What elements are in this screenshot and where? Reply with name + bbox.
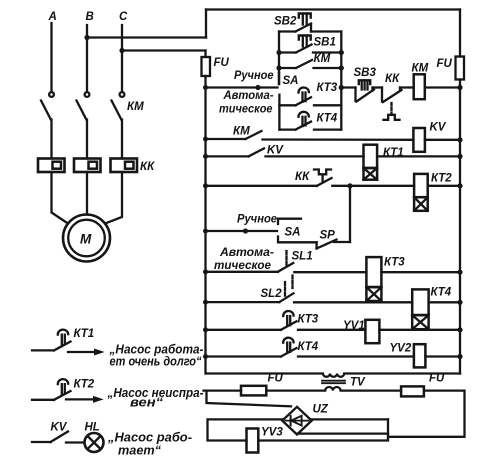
- contact KV (annunciation): [32, 422, 84, 443]
- wire phase C vertical: [121, 25, 123, 91]
- wire heater A to motor: [52, 172, 69, 224]
- node A (phase label): [48, 11, 57, 23]
- svg-text:UZ: UZ: [313, 404, 329, 416]
- svg-text:тает“: тает“: [118, 444, 162, 458]
- svg-text:КТ3: КТ3: [317, 82, 338, 94]
- svg-text:КТ1: КТ1: [74, 328, 95, 340]
- svg-text:КМ: КМ: [314, 53, 331, 65]
- label KM (main contacts): [127, 101, 144, 113]
- wire pole A to heater: [50, 120, 52, 159]
- wire DC loop left: [208, 419, 283, 440]
- contact KT3 (NO delayed, auto branch): [279, 82, 341, 105]
- coil KT3 (timer): [366, 257, 462, 302]
- wire DC loop right: [258, 419, 388, 440]
- fuse FU (bottom right): [401, 373, 445, 397]
- svg-text:Автома-: Автома-: [219, 245, 274, 259]
- coil KT2 (timer): [414, 173, 463, 211]
- svg-text:А: А: [48, 11, 57, 23]
- svg-text:SA: SA: [283, 75, 299, 87]
- svg-text:Ручное: Ручное: [237, 212, 277, 226]
- wire automatic branch rail: [278, 95, 280, 130]
- wire secondary mid with TV secondary winding: [266, 387, 401, 391]
- wire heater B to motor: [86, 172, 88, 215]
- svg-text:тическое: тическое: [219, 102, 273, 116]
- wire phase A vertical: [50, 23, 52, 91]
- label Avtomaticheskoe (top): [219, 88, 274, 116]
- svg-text:FU: FU: [214, 57, 230, 69]
- svg-text:тическое: тическое: [214, 258, 271, 272]
- coil KV: [413, 122, 462, 152]
- wire C to left fuse: [122, 49, 206, 51]
- wire AC feed to rectifier: [207, 391, 292, 407]
- lamp HL: [85, 422, 104, 453]
- svg-text:КТ2: КТ2: [74, 379, 95, 391]
- fuse FU (bottom left): [241, 373, 284, 396]
- svg-text:SA: SA: [285, 227, 301, 239]
- contact KK (thermal NC, row A): [382, 73, 414, 120]
- svg-text:KV: KV: [430, 122, 447, 134]
- contact KM (seal-in, NO): [279, 53, 341, 68]
- selector SA common tick: [279, 73, 298, 87]
- svg-text:FU: FU: [429, 373, 445, 385]
- wire parallel block left rail: [278, 32, 280, 73]
- contact KV (row C): [203, 145, 364, 159]
- arrow KT1 output: [68, 349, 103, 355]
- contactor KM main contact pole A: [41, 92, 54, 119]
- pushbutton SB3 (NC): [354, 67, 383, 102]
- svg-text:ет очень долго“: ет очень долго“: [110, 355, 203, 369]
- svg-text:Ручное: Ручное: [234, 68, 274, 82]
- node B (phase label): [86, 11, 94, 23]
- contact KT2 (annunciation): [32, 379, 95, 400]
- wire left rail: [204, 88, 206, 374]
- transformer TV core: [322, 377, 366, 389]
- svg-text:HL: HL: [85, 422, 100, 434]
- pushbutton SB2 (stop, NC): [274, 14, 341, 32]
- rectifier UZ: [282, 404, 329, 435]
- wire bottom frame with transformer TV primary: [206, 374, 460, 377]
- selector SA (lower): [278, 219, 317, 243]
- svg-text:КТ3: КТ3: [298, 314, 319, 326]
- node C junction: [119, 48, 124, 53]
- contact KT3 (NO delayed, row H): [203, 311, 365, 332]
- wire right rail: [459, 80, 461, 374]
- wire DC band lower: [298, 432, 388, 434]
- arrow KT2 output: [66, 397, 102, 403]
- wire top frame: [206, 8, 460, 10]
- wire branch row D to SP: [349, 186, 351, 242]
- svg-text:SL2: SL2: [261, 288, 283, 300]
- label pump runs too long: [109, 343, 204, 369]
- fuse FU (right): [437, 10, 465, 80]
- contactor KM main contact pole C: [112, 92, 125, 119]
- svg-text:КТ4: КТ4: [431, 287, 452, 299]
- svg-text:КК: КК: [385, 73, 400, 85]
- svg-text:ТV: ТV: [350, 377, 366, 389]
- wire DC band upper: [312, 418, 388, 420]
- coil KT4 (timer): [412, 287, 462, 330]
- contact SL2 (level switch, row G): [203, 282, 412, 305]
- wire B to control frame: [87, 36, 206, 38]
- contact KM aux (row B): [203, 126, 413, 142]
- fuse FU (left): [202, 51, 230, 88]
- svg-text:Автома-: Автома-: [223, 88, 274, 102]
- contact KK (thermal NC, row D): [203, 170, 414, 189]
- wire phase B vertical: [86, 25, 88, 91]
- thermal relay KK heater B: [74, 159, 101, 173]
- svg-text:SP: SP: [320, 230, 336, 242]
- coil YV1 (solenoid valve): [343, 320, 463, 343]
- svg-text:SL1: SL1: [292, 251, 313, 263]
- thermal relay KK heater A: [38, 159, 65, 173]
- coil YV3 (solenoid valve): [247, 427, 284, 453]
- svg-text:КМ: КМ: [412, 63, 429, 75]
- wire secondary right drop: [388, 391, 465, 437]
- contact KT4 (NO delayed, row I): [203, 338, 414, 359]
- svg-text:КТ3: КТ3: [384, 257, 405, 269]
- svg-text:М: М: [80, 232, 92, 247]
- thermal relay KK heater C: [111, 159, 138, 173]
- svg-text:SB2: SB2: [274, 16, 297, 28]
- wire heater C to motor: [105, 172, 122, 224]
- svg-text:КТ4: КТ4: [317, 113, 338, 125]
- svg-text:КТ4: КТ4: [298, 341, 319, 353]
- contact SL1 (level switch, row F): [203, 251, 366, 289]
- label KK (heaters): [140, 161, 155, 173]
- svg-text:KV: KV: [51, 422, 68, 434]
- coil KM: [412, 63, 463, 100]
- svg-text:КМ: КМ: [233, 126, 250, 138]
- svg-text:С: С: [119, 11, 128, 23]
- label pump faulty: [107, 386, 204, 410]
- svg-text:КК: КК: [140, 161, 155, 173]
- coil KT1 (timer): [364, 145, 463, 180]
- label Ruchnoe (top): [234, 68, 274, 82]
- wire pole B to heater: [86, 120, 88, 159]
- svg-text:FU: FU: [437, 58, 453, 70]
- label pump running: [107, 431, 192, 458]
- contactor KM main contact pole B: [77, 92, 90, 119]
- svg-text:SB3: SB3: [354, 67, 377, 79]
- svg-text:KV: KV: [267, 145, 284, 157]
- wire parallel block right rail: [276, 32, 344, 130]
- motor M: [63, 215, 110, 262]
- svg-text:„Насос рабо-: „Насос рабо-: [107, 431, 192, 445]
- svg-text:В: В: [86, 11, 94, 23]
- pushbutton SB1 (start, NO): [279, 36, 341, 53]
- contact KT4 (NO delayed, auto branch): [279, 112, 341, 130]
- wire row A mid: [341, 86, 355, 88]
- svg-text:YV2: YV2: [390, 343, 412, 355]
- node B junction: [84, 35, 89, 40]
- svg-text:SB1: SB1: [314, 37, 336, 49]
- wire transformer secondary row: [204, 389, 242, 391]
- contact SP (pressure switch): [317, 230, 350, 249]
- contact KT1 (annunciation): [32, 328, 94, 350]
- wire row A left (Ruchnoe): [203, 85, 278, 90]
- svg-text:КК: КК: [295, 171, 310, 183]
- node C (phase label): [119, 11, 128, 23]
- wire Ruchnoe (lower): [203, 228, 277, 233]
- wire left frame upper: [205, 10, 207, 38]
- svg-text:FU: FU: [268, 373, 284, 385]
- label Avtomaticheskoe (lower): [214, 245, 274, 272]
- svg-text:КМ: КМ: [127, 101, 144, 113]
- svg-text:YV1: YV1: [343, 320, 365, 332]
- wire pole C to heater: [121, 120, 123, 159]
- label Ruchnoe (lower): [237, 212, 277, 226]
- svg-text:YV3: YV3: [261, 427, 283, 439]
- coil YV2 (solenoid valve): [390, 343, 463, 368]
- svg-text:вен“: вен“: [130, 396, 164, 410]
- svg-text:КТ2: КТ2: [431, 173, 452, 185]
